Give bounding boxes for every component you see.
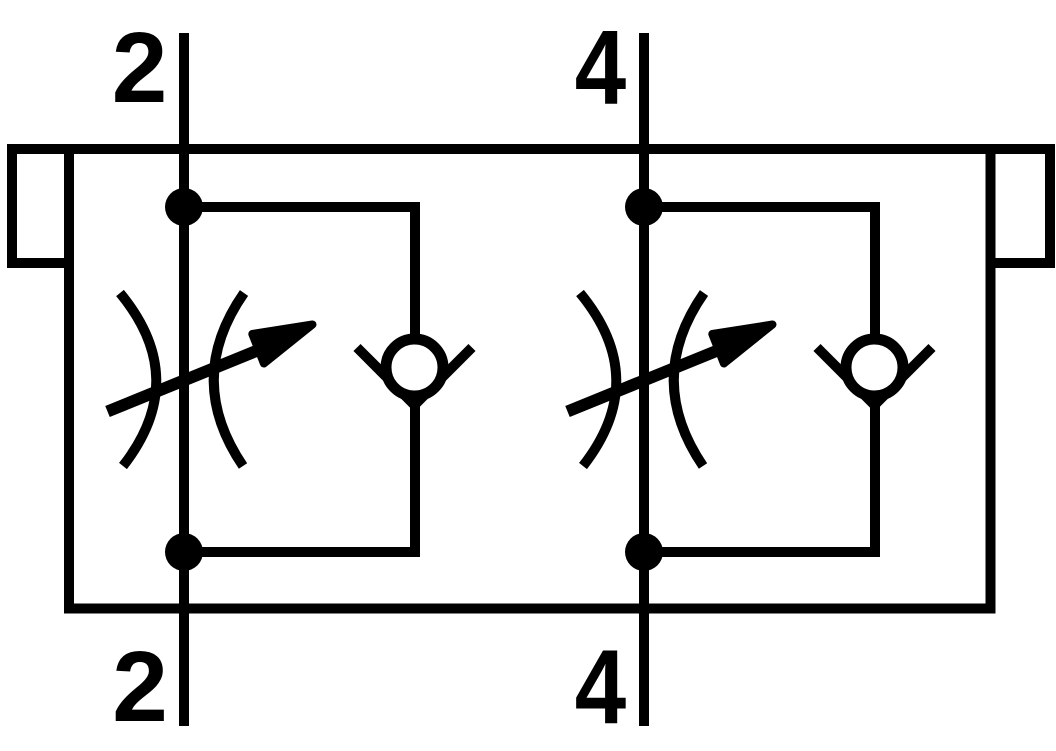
svg-text:2: 2 <box>112 12 168 124</box>
check valve 2 ball circle <box>846 339 903 396</box>
valve body enclosure with mounting tabs <box>12 149 1050 609</box>
throttle V2 adjustment arrow head <box>712 325 772 364</box>
svg-text:2: 2 <box>112 631 168 743</box>
throttle V2 right arc <box>674 293 704 466</box>
throttle V1 adjustment arrow head <box>252 325 312 364</box>
wire: bypass loop of valve 2 <box>644 207 875 552</box>
check valve 1 seat <box>357 348 472 406</box>
flow control valve 1 (ports 2) <box>108 188 473 571</box>
port label 4 top <box>575 9 626 127</box>
wire: bypass loop of valve 1 <box>184 207 415 552</box>
junction dot valve 1 bottom <box>165 533 203 571</box>
port line 2 (vertical through-line) <box>179 33 189 726</box>
throttle V2 adjustment arrow shaft <box>568 343 737 412</box>
port line 4 (vertical through-line) <box>639 33 649 726</box>
svg-text:4: 4 <box>575 629 626 747</box>
junction dot valve 1 top <box>165 188 203 226</box>
port label 4 bottom <box>575 629 626 747</box>
check valve 2 seat <box>817 348 932 406</box>
wire: top edge with left+right tab outline <box>12 149 1050 263</box>
throttle V1 right arc <box>214 293 244 466</box>
junction dot valve 2 top <box>625 188 663 226</box>
junction dot valve 2 bottom <box>625 533 663 571</box>
throttle V1 adjustment arrow shaft <box>108 343 277 412</box>
check valve 1 ball circle <box>386 339 443 396</box>
svg-text:4: 4 <box>575 9 626 127</box>
flow control valve 2 (ports 4) <box>568 188 933 571</box>
throttle V1 left arc <box>120 293 156 466</box>
wire: enclosure left wall, bottom edge, right wall <box>69 149 991 609</box>
throttle V2 left arc <box>580 293 616 466</box>
